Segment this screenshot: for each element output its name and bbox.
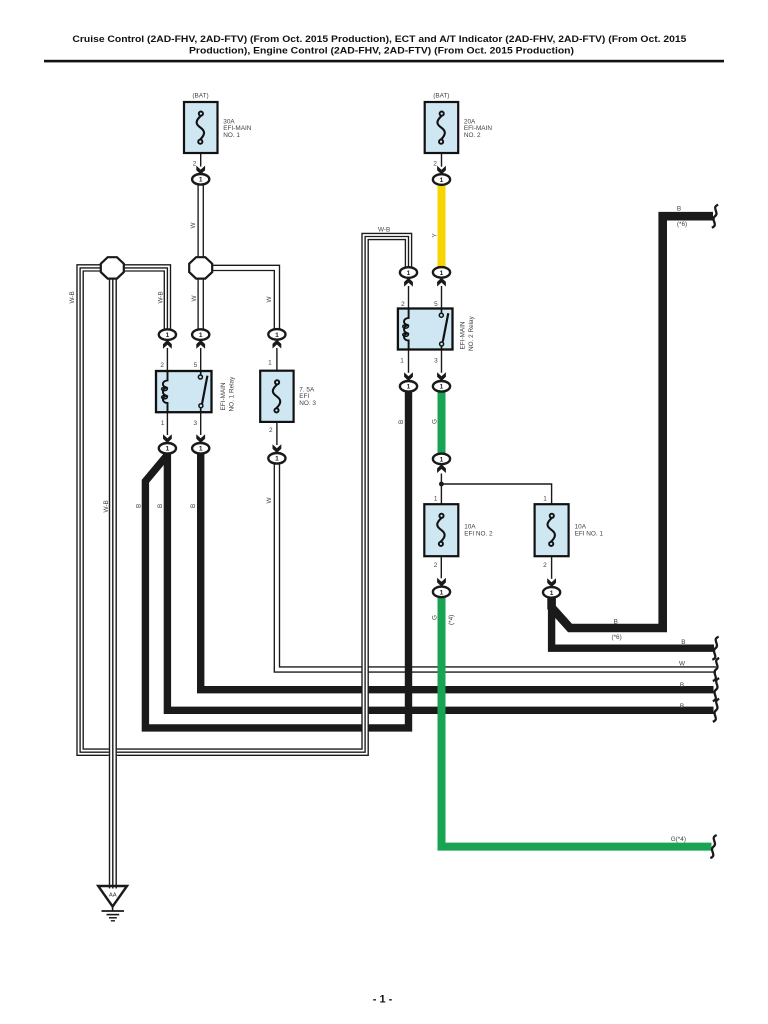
svg-text:B: B [614, 619, 618, 626]
pin stub relay2 pin2 [408, 286, 410, 309]
wire B fuse EFI NO.1 down then right to break [552, 597, 714, 648]
svg-text:(*4): (*4) [448, 615, 455, 625]
wire W-B node J1 right branch to relay1 pin2 [123, 265, 170, 330]
connector arrow below E6 [404, 278, 413, 287]
svg-text:NO. 2 Relay: NO. 2 Relay [468, 315, 475, 351]
svg-text:2: 2 [543, 562, 547, 569]
ground AA symbol [98, 886, 127, 921]
svg-text:2: 2 [193, 161, 197, 168]
svg-text:1: 1 [440, 270, 444, 277]
wire G fuse EFI NO.2 down and right to break (green) [442, 597, 712, 847]
svg-text:EFI-MAIN: EFI-MAIN [460, 321, 467, 349]
svg-text:W: W [190, 222, 197, 229]
svg-text:(BAT): (BAT) [192, 93, 208, 100]
svg-text:1: 1 [199, 177, 203, 184]
svg-text:2: 2 [269, 427, 273, 434]
break symbol B right 3 [713, 678, 719, 701]
svg-text:1: 1 [199, 446, 203, 453]
connector arrow below E4 [196, 340, 205, 349]
svg-text:1: 1 [275, 332, 279, 339]
pin stub fuse1 pin2 [200, 153, 202, 167]
fuse 7.5A EFI NO.3 [260, 371, 293, 422]
svg-text:1: 1 [166, 332, 170, 339]
svg-text:1: 1 [199, 332, 203, 339]
wire W-B main loop: node J1 left, down, bottom run, riser, arch to relay2 pin2 [77, 233, 412, 755]
connector E3 (relay1 pin2 in) [159, 329, 176, 340]
svg-text:(*6): (*6) [611, 634, 621, 641]
svg-text:2: 2 [160, 362, 164, 369]
svg-text:B: B [190, 504, 197, 508]
svg-text:1: 1 [440, 589, 444, 596]
svg-text:Cruise Control (2AD-FHV, 2AD-F: Cruise Control (2AD-FHV, 2AD-FTV) (From … [72, 34, 687, 45]
connector E14 (fuse EFI NO.2 out) [433, 587, 450, 598]
connector arrow into E2 [437, 166, 446, 175]
break symbol W right [713, 658, 719, 681]
svg-text:5: 5 [434, 301, 438, 308]
pin stub relay2 pin1 [408, 349, 410, 372]
svg-text:3: 3 [194, 420, 198, 427]
wire G relay2 pin3 to mid connector (green) [438, 391, 446, 454]
label fuse1 value 30A EFI-MAIN NO.1 [223, 118, 251, 139]
svg-text:W: W [266, 497, 273, 504]
connector arrow into E8 [163, 434, 172, 443]
connector arrow into E11 [404, 372, 413, 381]
svg-text:G(*4): G(*4) [671, 836, 686, 843]
connector arrow into E10 [273, 444, 282, 453]
connector arrow below E5 [273, 340, 282, 349]
svg-text:(BAT): (BAT) [433, 93, 449, 100]
svg-text:1: 1 [440, 384, 444, 391]
connector E13 (green mid) [433, 454, 450, 465]
wire Y fuse2 to relay2 pin5 (yellow) [438, 185, 446, 268]
pin stub fuse EFI NO.1 pin2 [551, 556, 553, 579]
svg-text:3: 3 [434, 357, 438, 364]
svg-text:G: G [431, 419, 438, 424]
pin stub fuse EFI NO.3 pin1 [276, 348, 278, 371]
connector E8 (relay1 pin1 out) [159, 443, 176, 454]
svg-text:1: 1 [275, 456, 279, 463]
connector E2 (fuse2 out) [433, 174, 450, 185]
label fuse2 value 20A EFI-MAIN NO.2 [464, 118, 492, 139]
wire B relay1 pin1 diagonal branch down right and up to relay2 pin1 [145, 391, 408, 728]
svg-text:NO. 3: NO. 3 [299, 400, 316, 407]
svg-text:NO. 1: NO. 1 [223, 132, 240, 139]
junction dot node A [439, 482, 444, 487]
node J2 octagon junction [189, 257, 212, 278]
svg-text:W-B: W-B [378, 227, 390, 234]
svg-text:NO. 2: NO. 2 [464, 132, 481, 139]
connector arrow below E3 [163, 340, 172, 349]
relay U2 EFI-MAIN NO.2 Relay [398, 309, 453, 350]
svg-text:(*6): (*6) [677, 221, 687, 228]
connector E6 (relay2 pin2 in) [400, 267, 417, 278]
pin stub relay1 pin3 [200, 412, 202, 435]
svg-text:EFI NO. 1: EFI NO. 1 [575, 531, 604, 538]
svg-text:EFI NO. 2: EFI NO. 2 [464, 531, 493, 538]
svg-text:1: 1 [407, 270, 411, 277]
svg-text:NO. 1 Relay: NO. 1 Relay [229, 376, 236, 412]
connector arrow into E12 [437, 372, 446, 381]
pin stub fuse EFI NO.3 pin2 [276, 422, 278, 445]
svg-text:5: 5 [194, 362, 198, 369]
svg-text:W: W [679, 661, 686, 668]
svg-text:1: 1 [268, 360, 272, 367]
svg-text:1: 1 [550, 590, 554, 597]
label fuse4 value 10A EFI NO.2 [464, 524, 493, 538]
fuse 10A EFI NO.1 [535, 504, 569, 556]
svg-text:1: 1 [434, 495, 438, 502]
svg-text:Production), Engine Control (2: Production), Engine Control (2AD-FHV, 2A… [189, 45, 574, 56]
wire B relay1 pin3 down then right to break [201, 453, 714, 690]
connector E7 (relay2 pin5 in) [433, 267, 450, 278]
svg-text:B: B [680, 682, 684, 689]
connector arrow below E7 [437, 278, 446, 287]
wire W-B node J1 down to ground AA (triple line) [110, 278, 117, 889]
svg-text:1: 1 [440, 456, 444, 463]
svg-text:1: 1 [400, 357, 404, 364]
svg-text:G: G [431, 615, 438, 620]
svg-text:W-B: W-B [158, 291, 165, 303]
svg-text:B: B [680, 703, 684, 710]
connector arrow into E9 [196, 434, 205, 443]
wire W fuse EFI NO.3 pin2 down and right to break (double line) [274, 464, 716, 672]
label fuse5 value 10A EFI NO.1 [575, 524, 604, 538]
label relay2 name EFI-MAIN NO.2 Relay (rotated) [460, 315, 476, 351]
connector E12 (relay2 pin3 out) [433, 381, 450, 392]
svg-text:2: 2 [401, 301, 405, 308]
break symbol B mid right [712, 637, 718, 660]
connector E5 (fuse EFI NO.3 pin1 in) [268, 329, 285, 340]
wire W node J2 right branch to fuse EFI NO.3 pin1 [212, 265, 280, 329]
break symbol G bottom right [710, 835, 716, 858]
connector arrow into E15 [547, 578, 556, 587]
svg-text:B: B [677, 206, 681, 213]
break symbol B top right [712, 205, 718, 228]
connector E1 (fuse1 out) [192, 174, 209, 185]
header rule [44, 60, 724, 63]
connector arrow into E1 [196, 166, 205, 175]
node J1 octagon junction [101, 257, 124, 278]
connector E11 (relay2 pin1 out) [400, 381, 417, 392]
label fuse3 value 7.5A EFI NO.3 [299, 386, 316, 407]
pin stub relay1 pin5 [200, 348, 202, 371]
svg-text:W: W [266, 296, 273, 303]
break symbol B right 4 [713, 699, 719, 722]
pin stub fuse2 pin2 [441, 153, 443, 167]
connector E9 (relay1 pin3 out) [192, 443, 209, 454]
wire B relay1 pin1 straight down then right to break [167, 453, 713, 711]
svg-text:Y: Y [432, 233, 439, 238]
svg-text:W: W [191, 295, 198, 302]
svg-text:EFI-MAIN: EFI-MAIN [220, 382, 227, 410]
svg-text:1: 1 [440, 177, 444, 184]
connector arrow into E14 [437, 578, 446, 587]
svg-text:2: 2 [434, 562, 438, 569]
svg-text:1: 1 [166, 446, 170, 453]
connector E4 (relay1 pin5 in) [192, 329, 209, 340]
connector E15 (fuse EFI NO.1 out) [543, 587, 560, 598]
fuse 20A EFI-MAIN NO.2 [425, 102, 459, 153]
wire node A junction dot to fuses EFI NO.2 / EFI NO.1 pin1 [441, 474, 551, 505]
svg-text:1: 1 [407, 384, 411, 391]
label relay1 name EFI-MAIN NO.1 Relay (rotated) [220, 376, 236, 412]
svg-text:EFI-MAIN: EFI-MAIN [464, 125, 492, 132]
svg-text:B: B [398, 420, 405, 424]
svg-text:W-B: W-B [103, 500, 110, 512]
connector arrow below E13 [437, 464, 446, 473]
relay U1 EFI-MAIN NO.1 Relay [156, 371, 212, 412]
svg-text:W-B: W-B [69, 291, 76, 303]
fuse 30A EFI-MAIN NO.1 [184, 102, 218, 153]
svg-text:1: 1 [543, 495, 547, 502]
svg-text:B: B [157, 504, 164, 508]
wire W node J2 to relay1 pin5 (double line) [198, 278, 203, 329]
svg-text:- 1 -: - 1 - [373, 994, 393, 1006]
svg-text:2: 2 [433, 161, 437, 168]
wire W fuse1 to node J2 (double line) [198, 185, 203, 258]
svg-text:EFI-MAIN: EFI-MAIN [223, 125, 251, 132]
pin stub relay2 pin5 [441, 286, 443, 309]
svg-text:AA: AA [109, 892, 117, 898]
wire B fuse EFI NO.1 diagonal to (*6) riser up and right to break [552, 216, 713, 628]
pin stub relay1 pin2 [166, 348, 168, 371]
fuse 10A EFI NO.2 [424, 504, 458, 556]
svg-text:B: B [681, 639, 685, 646]
pin stub fuse EFI NO.2 pin2 [440, 556, 442, 578]
svg-text:B: B [135, 504, 142, 508]
pin stub relay1 pin1 [166, 412, 168, 435]
pin stub relay2 pin3 [441, 349, 443, 372]
connector E10 (fuse EFI NO.3 pin2 out) [268, 453, 285, 464]
svg-text:1: 1 [161, 420, 165, 427]
